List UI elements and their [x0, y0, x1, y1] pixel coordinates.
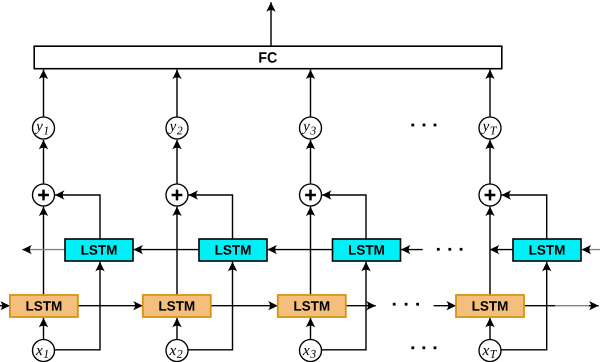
node plus (add) 3 [300, 184, 322, 206]
wire x2 to forward LSTM 2 [176, 318, 178, 340]
node xT [479, 340, 501, 362]
node yT [479, 117, 501, 139]
wire x3 to backward LSTM 3 [322, 262, 367, 350]
ellipsis dots forward LSTM row [393, 303, 419, 306]
wire backward LSTM 2 to plus2 [188, 195, 232, 239]
forward LSTM cell 3 (orange box) [278, 295, 346, 317]
wire initial state into backward LSTM T [582, 249, 600, 251]
wire forward LSTM 3 to dots [346, 305, 376, 307]
node y2 [166, 117, 188, 139]
node plus (add) T [479, 184, 501, 206]
node x2 [166, 340, 188, 362]
wire x2 to backward LSTM 2 [188, 262, 233, 350]
wire x3 to forward LSTM 3 [310, 318, 312, 340]
wire y2 to FC [176, 70, 178, 117]
backward LSTM cell 3 (cyan box) [333, 239, 401, 261]
node plus (add) 2 [166, 184, 188, 206]
wire forward LSTM 2 to forward LSTM 3 [211, 305, 278, 307]
wire backward LSTM 4 to plusT [501, 195, 546, 239]
wire dots to forward LSTM T [434, 305, 456, 307]
wire yT to FC [489, 70, 491, 117]
wire backward LSTM T to dots [490, 249, 513, 251]
wire plusT to yT [489, 140, 491, 184]
ellipsis dots y row [411, 124, 436, 127]
ellipsis dots x row [411, 346, 436, 349]
FC layer box [34, 46, 502, 68]
wire xT to backward LSTM 4 [501, 262, 547, 350]
wire y3 to FC [310, 70, 312, 117]
wire backward LSTM 1 output to left edge [22, 249, 65, 251]
wire x1 to backward LSTM 1 [55, 262, 101, 350]
backward LSTM cell 1 (cyan box) [65, 239, 133, 261]
wire forward LSTM 1 top to plus1 [43, 207, 45, 295]
wire xT to forward LSTM 4 [489, 318, 491, 340]
backward LSTM cell 4 (cyan box) [513, 239, 581, 261]
node y1 [33, 117, 55, 139]
wire backward LSTM 3 to plus3 [322, 195, 366, 239]
wire dots to backward LSTM 3 [401, 249, 423, 251]
node plus (add) 1 [33, 184, 55, 206]
forward LSTM cell 4 (orange box) [456, 295, 524, 317]
wire forward LSTM 2 top to plus2 [176, 207, 178, 295]
wire plus3 to y3 [310, 140, 312, 184]
wire forward LSTM 3 top to plus3 [310, 207, 312, 295]
ellipsis dots backward LSTM row [437, 248, 463, 251]
wire plus2 to y2 [176, 140, 178, 184]
wire backward LSTM 2 to backward LSTM 1 [133, 249, 199, 251]
forward LSTM cell 1 (orange box) [10, 295, 78, 317]
wire forward LSTM T output to right edge [524, 305, 599, 307]
wire y1 to FC [43, 70, 45, 117]
wire forward LSTM 1 to forward LSTM 2 [78, 305, 143, 307]
forward LSTM cell 2 (orange box) [143, 295, 211, 317]
node x1 [33, 340, 55, 362]
wire plus1 to y1 [43, 140, 45, 184]
backward LSTM cell 2 (cyan box) [199, 239, 267, 261]
node y3 [300, 117, 322, 139]
wire forward LSTM 4 top to plusT [489, 207, 491, 295]
wire initial state into forward LSTM 1 [0, 305, 10, 307]
node x3 [300, 340, 322, 362]
wire backward LSTM 3 to backward LSTM 2 [267, 249, 332, 251]
wire FC output arrow [270, 2, 272, 46]
wire backward LSTM 1 to plus1 [55, 195, 100, 239]
wire x1 to forward LSTM 1 [43, 318, 45, 340]
